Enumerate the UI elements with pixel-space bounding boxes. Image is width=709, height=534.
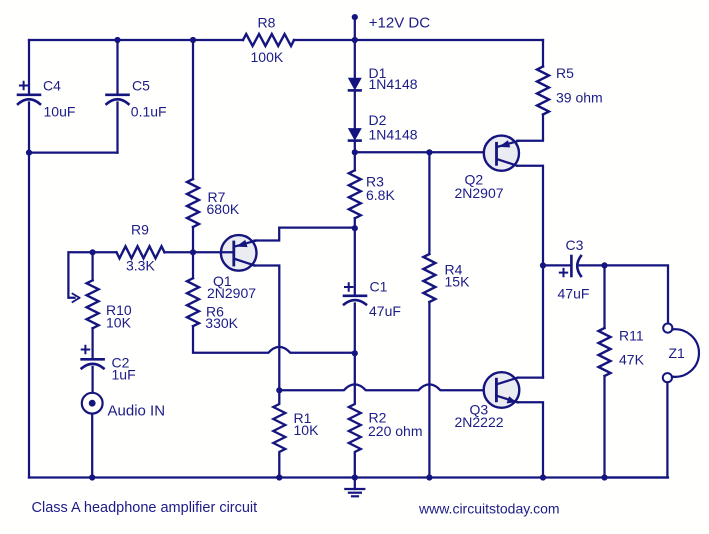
capacitor C5 xyxy=(107,95,129,104)
wire Q3 collector xyxy=(518,376,543,378)
wire Q1 emitter net xyxy=(255,228,355,241)
node audio ground xyxy=(89,474,95,480)
svg-text:47K: 47K xyxy=(619,352,645,368)
wire top rail left segment xyxy=(29,39,243,41)
wire C3 right to corner xyxy=(580,265,668,323)
transistor Q1 xyxy=(221,235,257,271)
capacitor C2 xyxy=(82,346,104,369)
wire D2 to node xyxy=(354,141,356,153)
node R4 bottom xyxy=(426,474,432,480)
pot wiper arrowhead xyxy=(73,294,80,302)
wire bottom rail xyxy=(29,476,668,478)
ground xyxy=(345,478,364,497)
capacitor C4 xyxy=(18,82,40,104)
capacitor C3 xyxy=(560,256,581,276)
svg-text:www.circuitstoday.com: www.circuitstoday.com xyxy=(418,501,560,517)
wire R7 to base node xyxy=(192,227,194,252)
node C3 right xyxy=(601,262,607,268)
wire R10 top xyxy=(91,252,93,280)
wire R9 left to pot top xyxy=(93,251,117,253)
svg-text:47uF: 47uF xyxy=(558,286,590,302)
svg-text:R5: R5 xyxy=(556,65,574,81)
svg-text:15K: 15K xyxy=(445,274,471,290)
wire R3 bottom xyxy=(354,218,356,228)
wire C5 branch lower xyxy=(116,103,118,153)
wire R11 top xyxy=(603,265,605,328)
svg-text:R9: R9 xyxy=(131,222,149,238)
wire jack to ground rail xyxy=(91,414,93,478)
svg-text:R11: R11 xyxy=(619,328,644,344)
svg-text:330K: 330K xyxy=(205,315,238,331)
node C1 R2 xyxy=(352,350,358,356)
resistor R11 xyxy=(599,328,611,376)
wire Q2 emitter to R5 xyxy=(517,115,543,141)
headphone Z1 xyxy=(663,324,699,383)
svg-text:3.3K: 3.3K xyxy=(126,258,155,274)
resistor R2 xyxy=(349,353,361,477)
resistor R8 xyxy=(243,34,294,46)
svg-text:6.8K: 6.8K xyxy=(366,187,395,203)
diode D1 xyxy=(349,79,361,91)
resistor R5 xyxy=(537,67,549,115)
wire R3 top xyxy=(354,152,356,170)
wire Q3 emitter xyxy=(518,402,543,477)
audio jack J1 xyxy=(82,393,103,414)
node R1 bottom xyxy=(276,474,282,480)
wire Q1 collector net xyxy=(254,266,279,391)
wire R5 top to rail xyxy=(542,40,544,67)
wire Q2 collector down to output node and Q3 collector xyxy=(517,166,543,378)
wire Q2 base net xyxy=(355,151,497,153)
svg-text:1N4148: 1N4148 xyxy=(369,127,418,143)
resistor R6 xyxy=(187,278,199,326)
wire R9 right segment xyxy=(165,251,194,253)
svg-text:680K: 680K xyxy=(207,201,240,217)
node Q3 emitter rail xyxy=(540,474,546,480)
wire R7 branch top xyxy=(192,40,194,179)
svg-text:2N2907: 2N2907 xyxy=(207,285,256,301)
node C5 top xyxy=(114,37,120,43)
wire C2 to jack xyxy=(91,367,93,393)
svg-text:100K: 100K xyxy=(251,49,284,65)
capacitor C1 xyxy=(344,283,366,304)
resistor R3 xyxy=(349,170,361,218)
node +12V rail xyxy=(352,37,358,43)
svg-text:2N2222: 2N2222 xyxy=(455,414,504,430)
wire D1 D2 branch xyxy=(354,40,356,79)
svg-text:Z1: Z1 xyxy=(669,345,686,361)
transistor Q2 xyxy=(484,136,519,171)
wire C1 bottom xyxy=(354,304,356,354)
wire C4-C5 join xyxy=(29,151,118,153)
wire R11 bottom xyxy=(603,376,605,478)
svg-text:0.1uF: 0.1uF xyxy=(131,104,167,120)
resistor R4 xyxy=(423,254,435,302)
wire Q3 base net with hops xyxy=(279,384,496,390)
node R9 pot xyxy=(90,249,96,255)
svg-text:10K: 10K xyxy=(294,422,320,438)
node R7 top xyxy=(190,37,196,43)
svg-text:1N4148: 1N4148 xyxy=(369,76,418,92)
node D2 cathode xyxy=(352,149,358,155)
wire pot wiper xyxy=(68,252,92,297)
svg-text:C1: C1 xyxy=(370,279,388,295)
wire R4 branch xyxy=(428,152,430,254)
node Q1 base xyxy=(190,249,196,255)
svg-text:Audio IN: Audio IN xyxy=(108,403,166,420)
svg-text:R8: R8 xyxy=(258,15,276,31)
svg-text:1uF: 1uF xyxy=(112,367,136,383)
resistor R1 xyxy=(273,390,285,477)
wire R6 top xyxy=(192,252,194,278)
node R3 C1 xyxy=(352,225,358,231)
wire left rail lower xyxy=(28,103,30,478)
wire R6 bottom to C1 node with hop xyxy=(193,326,355,353)
node C4 C5 join xyxy=(26,150,32,156)
svg-text:10K: 10K xyxy=(106,315,132,331)
resistor R9 xyxy=(117,246,165,258)
wire C1 top xyxy=(354,228,356,295)
wire D1 to D2 xyxy=(354,90,356,128)
svg-text:39 ohm: 39 ohm xyxy=(556,90,603,106)
node R4 top xyxy=(426,149,432,155)
diode D2 xyxy=(349,129,361,141)
wire C5 branch upper xyxy=(116,40,118,94)
node +12V top xyxy=(352,14,358,20)
wire Z1 bottom to rail xyxy=(605,382,668,477)
svg-text:C3: C3 xyxy=(566,237,584,253)
wire Q1 base xyxy=(193,251,234,253)
svg-text:Class A headphone amplifier ci: Class A headphone amplifier circuit xyxy=(32,500,258,516)
wire +12V stub xyxy=(354,17,356,40)
transistor Q3 xyxy=(484,372,520,408)
svg-text:2N2907: 2N2907 xyxy=(455,185,504,201)
node R2 ground xyxy=(352,474,358,480)
wire R4 bottom xyxy=(428,302,430,478)
resistor R7 xyxy=(187,179,199,227)
wire output node to C3 xyxy=(543,264,570,266)
svg-text:C5: C5 xyxy=(132,78,150,94)
node R1 top xyxy=(276,387,282,393)
svg-text:+12V DC: +12V DC xyxy=(369,15,430,32)
wire left rail upper (to C4) xyxy=(28,40,30,94)
node C3 left xyxy=(540,262,546,268)
potentiometer R10 xyxy=(87,280,99,328)
svg-text:10uF: 10uF xyxy=(44,104,76,120)
node R11 bottom xyxy=(601,474,607,480)
wire top rail right segment xyxy=(294,39,543,41)
svg-text:220 ohm: 220 ohm xyxy=(368,423,422,439)
svg-text:47uF: 47uF xyxy=(369,303,401,319)
wire R10 to C2 xyxy=(91,328,93,359)
svg-text:C4: C4 xyxy=(43,78,61,94)
